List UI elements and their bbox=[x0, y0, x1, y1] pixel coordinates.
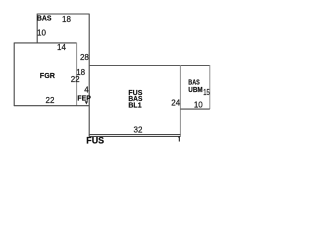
wire bbox=[209, 65, 211, 109]
svg-text:22: 22 bbox=[71, 75, 80, 84]
svg-text:28: 28 bbox=[80, 53, 89, 62]
wire bbox=[14, 105, 89, 107]
node 1 (strip dimension) bbox=[178, 136, 180, 141]
node arrow mark under FEP bbox=[85, 101, 88, 104]
svg-text:14: 14 bbox=[57, 43, 66, 52]
svg-text:24: 24 bbox=[171, 98, 180, 107]
svg-text:18: 18 bbox=[62, 15, 71, 24]
svg-text:22: 22 bbox=[46, 96, 55, 105]
wire bbox=[180, 108, 209, 110]
svg-text:10: 10 bbox=[194, 100, 203, 109]
wire bbox=[89, 65, 210, 67]
wire bbox=[37, 13, 89, 15]
wire bbox=[88, 14, 90, 137]
wire bbox=[89, 135, 180, 137]
wire bbox=[36, 14, 38, 43]
svg-text:BAS: BAS bbox=[37, 14, 52, 23]
svg-text:UBM: UBM bbox=[188, 85, 202, 94]
svg-text:32: 32 bbox=[134, 125, 143, 134]
svg-text:10: 10 bbox=[37, 28, 46, 37]
wire bbox=[179, 65, 181, 137]
wire bbox=[76, 43, 78, 106]
svg-text:BL1: BL1 bbox=[128, 101, 141, 110]
svg-text:FEP: FEP bbox=[77, 94, 90, 103]
svg-text:FUS: FUS bbox=[86, 135, 104, 145]
wire bbox=[14, 42, 76, 44]
wire bbox=[89, 134, 180, 136]
wire bbox=[13, 43, 15, 107]
svg-text:15: 15 bbox=[203, 88, 210, 97]
svg-text:FGR: FGR bbox=[40, 71, 56, 80]
